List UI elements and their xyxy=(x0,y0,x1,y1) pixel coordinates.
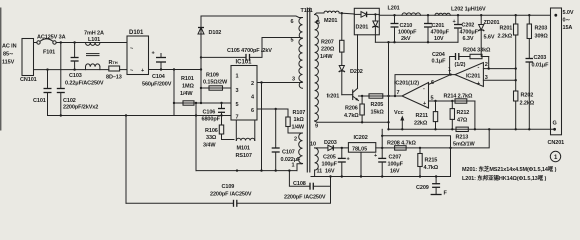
fuse F101 xyxy=(37,41,40,44)
main sense wire y129.3 xyxy=(389,128,555,130)
svg-text:1MΩ: 1MΩ xyxy=(182,84,194,90)
svg-text:R109: R109 xyxy=(206,73,219,79)
connector CN101 xyxy=(22,39,34,76)
svg-text:6.3V: 6.3V xyxy=(463,36,474,42)
svg-text:10: 10 xyxy=(310,142,316,148)
svg-text:R107: R107 xyxy=(293,110,306,116)
capacitor C210 xyxy=(394,15,396,23)
svg-text:C109: C109 xyxy=(222,184,235,190)
svg-text:16V: 16V xyxy=(325,169,335,175)
svg-text:+: + xyxy=(423,101,426,107)
svg-text:47Ω: 47Ω xyxy=(457,118,468,124)
svg-text:C101: C101 xyxy=(33,98,46,104)
svg-text:6800pF: 6800pF xyxy=(202,117,221,123)
svg-text:6: 6 xyxy=(291,19,294,25)
wire opamp out up link xyxy=(395,75,455,96)
svg-text:6: 6 xyxy=(251,108,254,114)
wire pin6 diagonal xyxy=(429,75,451,85)
svg-text:+: + xyxy=(453,19,456,25)
thermistor Rth 8D-13 xyxy=(109,66,120,71)
svg-text:AC125V 3A: AC125V 3A xyxy=(37,35,66,41)
node N-C103 xyxy=(73,68,75,70)
secondary +5V top rail xyxy=(379,14,550,16)
svg-text:C103: C103 xyxy=(69,73,82,79)
capacitor C107 xyxy=(275,109,277,148)
wire IC pin6 xyxy=(257,108,288,110)
node x201 xyxy=(200,68,202,70)
svg-text:C205: C205 xyxy=(323,155,336,161)
svg-text:10V: 10V xyxy=(434,36,444,42)
svg-text:M101: M101 xyxy=(237,146,250,152)
svg-text:78L05: 78L05 xyxy=(352,146,367,152)
capacitor C103 xyxy=(74,43,76,58)
svg-text:2: 2 xyxy=(294,137,297,143)
svg-text:R214 2.7kΩ: R214 2.7kΩ xyxy=(444,94,473,100)
svg-text:(1/2): (1/2) xyxy=(455,62,466,68)
svg-text:8D–13: 8D–13 xyxy=(106,75,122,81)
capacitor C104 xyxy=(160,62,162,70)
svg-text:L101: L101 xyxy=(88,37,100,43)
svg-text:560μF/200V: 560μF/200V xyxy=(142,82,172,88)
wire pin2 net xyxy=(483,68,515,70)
inductor L202 xyxy=(435,13,450,15)
svg-text:C210: C210 xyxy=(400,23,413,29)
wire T101 pin9 xyxy=(317,121,389,123)
svg-text:C102: C102 xyxy=(63,98,76,104)
inductor M101 RS107 xyxy=(235,120,237,141)
T101 primary winding upper xyxy=(299,18,303,89)
secondary snubber bus xyxy=(375,41,458,43)
svg-text:L202 1μH/16V: L202 1μH/16V xyxy=(451,7,486,13)
transistor fr201 xyxy=(342,94,353,96)
capacitor C101 xyxy=(47,70,49,89)
resistor R213 shunt xyxy=(456,127,468,131)
svg-text:+: + xyxy=(477,81,480,87)
svg-text:C104: C104 xyxy=(152,74,166,80)
diode D203 xyxy=(317,147,328,149)
svg-text:22kΩ: 22kΩ xyxy=(414,121,428,127)
wire N bottom xyxy=(34,69,109,71)
svg-text:C207: C207 xyxy=(389,155,402,161)
resistor R207 xyxy=(341,13,343,40)
svg-text:3: 3 xyxy=(236,88,239,94)
resistor R107 xyxy=(287,109,289,117)
feedback C204 R204 xyxy=(450,57,456,75)
svg-text:R211: R211 xyxy=(416,113,428,119)
svg-text:G: G xyxy=(553,121,557,127)
svg-text:5.0V: 5.0V xyxy=(563,10,574,16)
svg-text:D101: D101 xyxy=(129,30,144,36)
svg-text:R106: R106 xyxy=(205,128,218,134)
svg-text:R204 33kΩ: R204 33kΩ xyxy=(463,48,491,54)
IC101 STR regulator xyxy=(231,66,257,121)
zener D202 xyxy=(339,66,344,72)
svg-text:M201: M201 xyxy=(324,18,337,24)
svg-text:-: - xyxy=(423,86,425,92)
svg-text:2.2kΩ: 2.2kΩ xyxy=(520,101,535,107)
resistor R212 xyxy=(451,101,453,109)
wire IC pin2 to T101 pin3 xyxy=(257,82,302,84)
op-amp IC201 (1/2) error amp lower xyxy=(402,83,429,109)
wire R214 drop xyxy=(474,101,476,129)
svg-text:100μF: 100μF xyxy=(388,162,404,168)
svg-text:1: 1 xyxy=(554,155,558,161)
svg-text:5: 5 xyxy=(291,38,294,44)
bridge rectifier D101 xyxy=(127,36,149,75)
capacitor C106 xyxy=(221,103,223,109)
svg-text:F: F xyxy=(444,191,448,197)
capacitor C102 xyxy=(60,43,62,89)
svg-text:220Ω: 220Ω xyxy=(321,47,335,53)
svg-text:309Ω: 309Ω xyxy=(535,34,549,40)
svg-text:+: + xyxy=(141,68,144,74)
svg-text:+: + xyxy=(374,153,377,159)
capacitor C105 snubber xyxy=(201,56,246,58)
resistor R206 xyxy=(361,96,363,104)
svg-text:R215: R215 xyxy=(425,158,438,164)
svg-text:D201: D201 xyxy=(356,25,369,31)
wire L top xyxy=(34,42,37,44)
resistor R109 xyxy=(201,87,231,89)
svg-text:IC201(1/2): IC201(1/2) xyxy=(394,81,419,87)
svg-text:~: ~ xyxy=(130,46,133,52)
svg-text:ZD201: ZD201 xyxy=(484,20,500,26)
capacitor C205 xyxy=(341,148,343,159)
svg-text:0.01μF: 0.01μF xyxy=(532,63,550,69)
svg-text:R207: R207 xyxy=(321,40,334,46)
chassis ground F xyxy=(431,194,442,196)
svg-text:1kΩ: 1kΩ xyxy=(294,117,305,123)
T101 primary winding lower xyxy=(299,133,303,164)
page border artifact xyxy=(0,8,2,130)
svg-text:T101: T101 xyxy=(301,8,313,14)
svg-text:IC202: IC202 xyxy=(354,135,368,141)
svg-text:C105 4700pF /2kV: C105 4700pF /2kV xyxy=(227,48,272,54)
bead inductor M201 xyxy=(320,12,325,14)
resistor R208 xyxy=(395,146,407,150)
svg-text:F101: F101 xyxy=(43,50,55,56)
svg-text:7: 7 xyxy=(397,90,400,96)
emitter node wire xyxy=(359,95,403,97)
primary bottom return wire xyxy=(196,170,297,172)
collector wire to D201 xyxy=(357,35,359,89)
wire 300V rail xyxy=(149,69,202,71)
svg-text:C204: C204 xyxy=(432,52,446,58)
svg-text:+: + xyxy=(347,157,350,163)
svg-text:R202: R202 xyxy=(521,93,534,99)
transformer T101 core xyxy=(306,8,308,172)
Vcc arrow xyxy=(401,118,403,129)
svg-text:2: 2 xyxy=(485,62,488,68)
resistor R101 xyxy=(174,102,231,104)
svg-text:11: 11 xyxy=(317,169,323,175)
svg-text:1/4W: 1/4W xyxy=(320,54,333,60)
inductor L201 xyxy=(402,13,420,15)
wire xyxy=(56,42,127,44)
resistor R203 xyxy=(528,15,530,24)
resistor R201 xyxy=(515,15,517,24)
svg-text:16V: 16V xyxy=(390,169,400,175)
svg-text:D102: D102 xyxy=(209,30,222,36)
wire 78L05 output y147.9 xyxy=(376,129,489,148)
svg-text:0.15Ω/2W: 0.15Ω/2W xyxy=(203,80,228,86)
svg-text:CN201: CN201 xyxy=(548,140,565,146)
svg-text:C201: C201 xyxy=(432,23,445,29)
zener ZD201 xyxy=(480,15,482,24)
svg-text:RTH: RTH xyxy=(109,60,118,66)
svg-text:2kV: 2kV xyxy=(401,36,411,42)
svg-text:C108: C108 xyxy=(293,181,306,187)
wire pin5 net xyxy=(429,100,475,102)
svg-text:2200pF/2kVx2: 2200pF/2kVx2 xyxy=(63,105,98,111)
svg-text:1: 1 xyxy=(236,74,239,80)
svg-text:4.7kΩ: 4.7kΩ xyxy=(424,165,439,171)
svg-text:2200pF /AC250V: 2200pF /AC250V xyxy=(284,195,326,201)
svg-text:1/4W: 1/4W xyxy=(180,91,193,97)
resistor R214 xyxy=(455,99,467,103)
vertical aux feed x388.5 xyxy=(388,42,390,129)
resistor R215 xyxy=(419,148,421,154)
T101 secondary winding lower xyxy=(315,148,319,170)
node top-C103 xyxy=(73,41,75,43)
svg-text:AC IN: AC IN xyxy=(2,44,17,50)
svg-text:L201: 东邦亚锡HK14Ω(Φ1.5,13哐 ): L201: 东邦亚锡HK14Ω(Φ1.5,13哐 ) xyxy=(462,174,547,182)
svg-text:0.22μF/AC250V: 0.22μF/AC250V xyxy=(65,81,104,87)
svg-text:5.6V: 5.6V xyxy=(484,35,495,41)
svg-text:+: + xyxy=(152,51,155,57)
svg-text:R201: R201 xyxy=(500,26,513,32)
svg-text:15kΩ: 15kΩ xyxy=(371,110,385,116)
op-amp IC201 (1/2) upper xyxy=(455,63,483,87)
resistor R202 xyxy=(514,91,518,101)
svg-text:CN101: CN101 xyxy=(20,77,37,83)
svg-text:2200pF /AC250V: 2200pF /AC250V xyxy=(210,192,252,198)
svg-text:RS107: RS107 xyxy=(236,153,252,159)
capacitor C201 xyxy=(427,15,429,23)
node x174 xyxy=(173,68,175,70)
capacitor C207 xyxy=(381,129,383,158)
secondary ground rail xyxy=(311,176,451,178)
svg-text:R212: R212 xyxy=(457,110,470,116)
resistor R211 xyxy=(435,101,437,112)
wire vertical x174 xyxy=(173,70,175,116)
svg-text:-: - xyxy=(478,65,480,71)
svg-text:115V: 115V xyxy=(2,60,15,66)
svg-text:C209: C209 xyxy=(416,185,429,191)
svg-text:5mΩ/1W: 5mΩ/1W xyxy=(453,142,475,148)
svg-text:IC201: IC201 xyxy=(466,74,480,80)
svg-text:C203: C203 xyxy=(534,55,547,61)
capacitor C203 xyxy=(526,58,534,60)
resistor R106 xyxy=(221,116,223,126)
wire vertical x196 xyxy=(195,103,197,171)
svg-text:R101: R101 xyxy=(181,76,194,82)
svg-text:2: 2 xyxy=(251,81,254,87)
regulator IC202 78L05 xyxy=(348,143,375,153)
svg-text:B: B xyxy=(316,20,320,26)
svg-text:R203: R203 xyxy=(535,26,548,32)
svg-text:C106: C106 xyxy=(203,110,216,116)
svg-text:3: 3 xyxy=(292,77,295,83)
svg-text:7mH 2A: 7mH 2A xyxy=(84,31,104,37)
svg-text:L201: L201 xyxy=(388,6,400,12)
svg-text:IC101: IC101 xyxy=(236,60,253,66)
T101 secondary winding upper xyxy=(315,15,319,121)
node C104 xyxy=(160,68,162,70)
svg-text:85∼: 85∼ xyxy=(3,52,14,58)
output connector CN201 xyxy=(551,8,562,135)
ground rail primary xyxy=(48,115,232,117)
svg-text:15A: 15A xyxy=(563,25,573,31)
svg-text:D202: D202 xyxy=(350,69,363,75)
inductor L101 xyxy=(86,43,100,46)
svg-text:4700μF: 4700μF xyxy=(460,30,479,36)
svg-text:0.1μF: 0.1μF xyxy=(432,59,447,65)
svg-text:R213: R213 xyxy=(456,135,469,141)
wire aux y135.8 xyxy=(382,136,450,177)
diode D102 xyxy=(198,28,204,35)
svg-text:C107: C107 xyxy=(282,150,295,156)
svg-text:1/4W: 1/4W xyxy=(292,125,305,131)
svg-text:33Ω: 33Ω xyxy=(206,135,217,141)
svg-text:4700μF: 4700μF xyxy=(431,30,450,36)
node top-C102 xyxy=(60,41,62,43)
svg-text:M201: 东芝MS21x14x4.5M(Φ1.5,14哐: M201: 东芝MS21x14x4.5M(Φ1.5,14哐 ) xyxy=(462,165,557,173)
svg-text:Vcc: Vcc xyxy=(394,110,404,116)
wire pin4 drop xyxy=(261,83,263,171)
svg-text:fr201: fr201 xyxy=(327,94,340,100)
svg-text:R206: R206 xyxy=(345,106,358,112)
svg-text:3/4W: 3/4W xyxy=(203,143,216,149)
svg-text:2.2kΩ: 2.2kΩ xyxy=(498,34,513,40)
svg-text:4.7kΩ: 4.7kΩ xyxy=(344,113,359,119)
Y-capacitor C109 + earth line xyxy=(125,116,127,204)
svg-text:C202: C202 xyxy=(462,23,475,29)
svg-text:5: 5 xyxy=(236,102,239,108)
wire to T101 pin6 xyxy=(201,16,299,18)
Y-capacitor C108 xyxy=(289,171,310,187)
svg-text:R208 4.7kΩ: R208 4.7kΩ xyxy=(387,141,416,147)
svg-text:0∼: 0∼ xyxy=(563,18,571,24)
svg-text:1000pF: 1000pF xyxy=(398,30,417,36)
wire vertical x201 (snubber leg) xyxy=(200,16,202,103)
test point circled 1 xyxy=(550,151,560,161)
rectifier block D201 xyxy=(354,8,379,35)
svg-text:4: 4 xyxy=(251,95,255,101)
svg-text:D203: D203 xyxy=(324,140,337,146)
node N-C101 xyxy=(46,68,48,70)
svg-text:9: 9 xyxy=(315,124,318,130)
capacitor C209 xyxy=(435,177,437,184)
svg-text:1: 1 xyxy=(292,163,295,169)
svg-text:~: ~ xyxy=(130,68,133,74)
resistor R205 xyxy=(369,94,383,98)
wire pin3 net xyxy=(483,79,515,81)
node R207 tap xyxy=(341,12,343,14)
capacitor C202 xyxy=(457,15,459,24)
svg-text:R205: R205 xyxy=(371,102,384,108)
svg-text:100μF: 100μF xyxy=(322,162,338,168)
